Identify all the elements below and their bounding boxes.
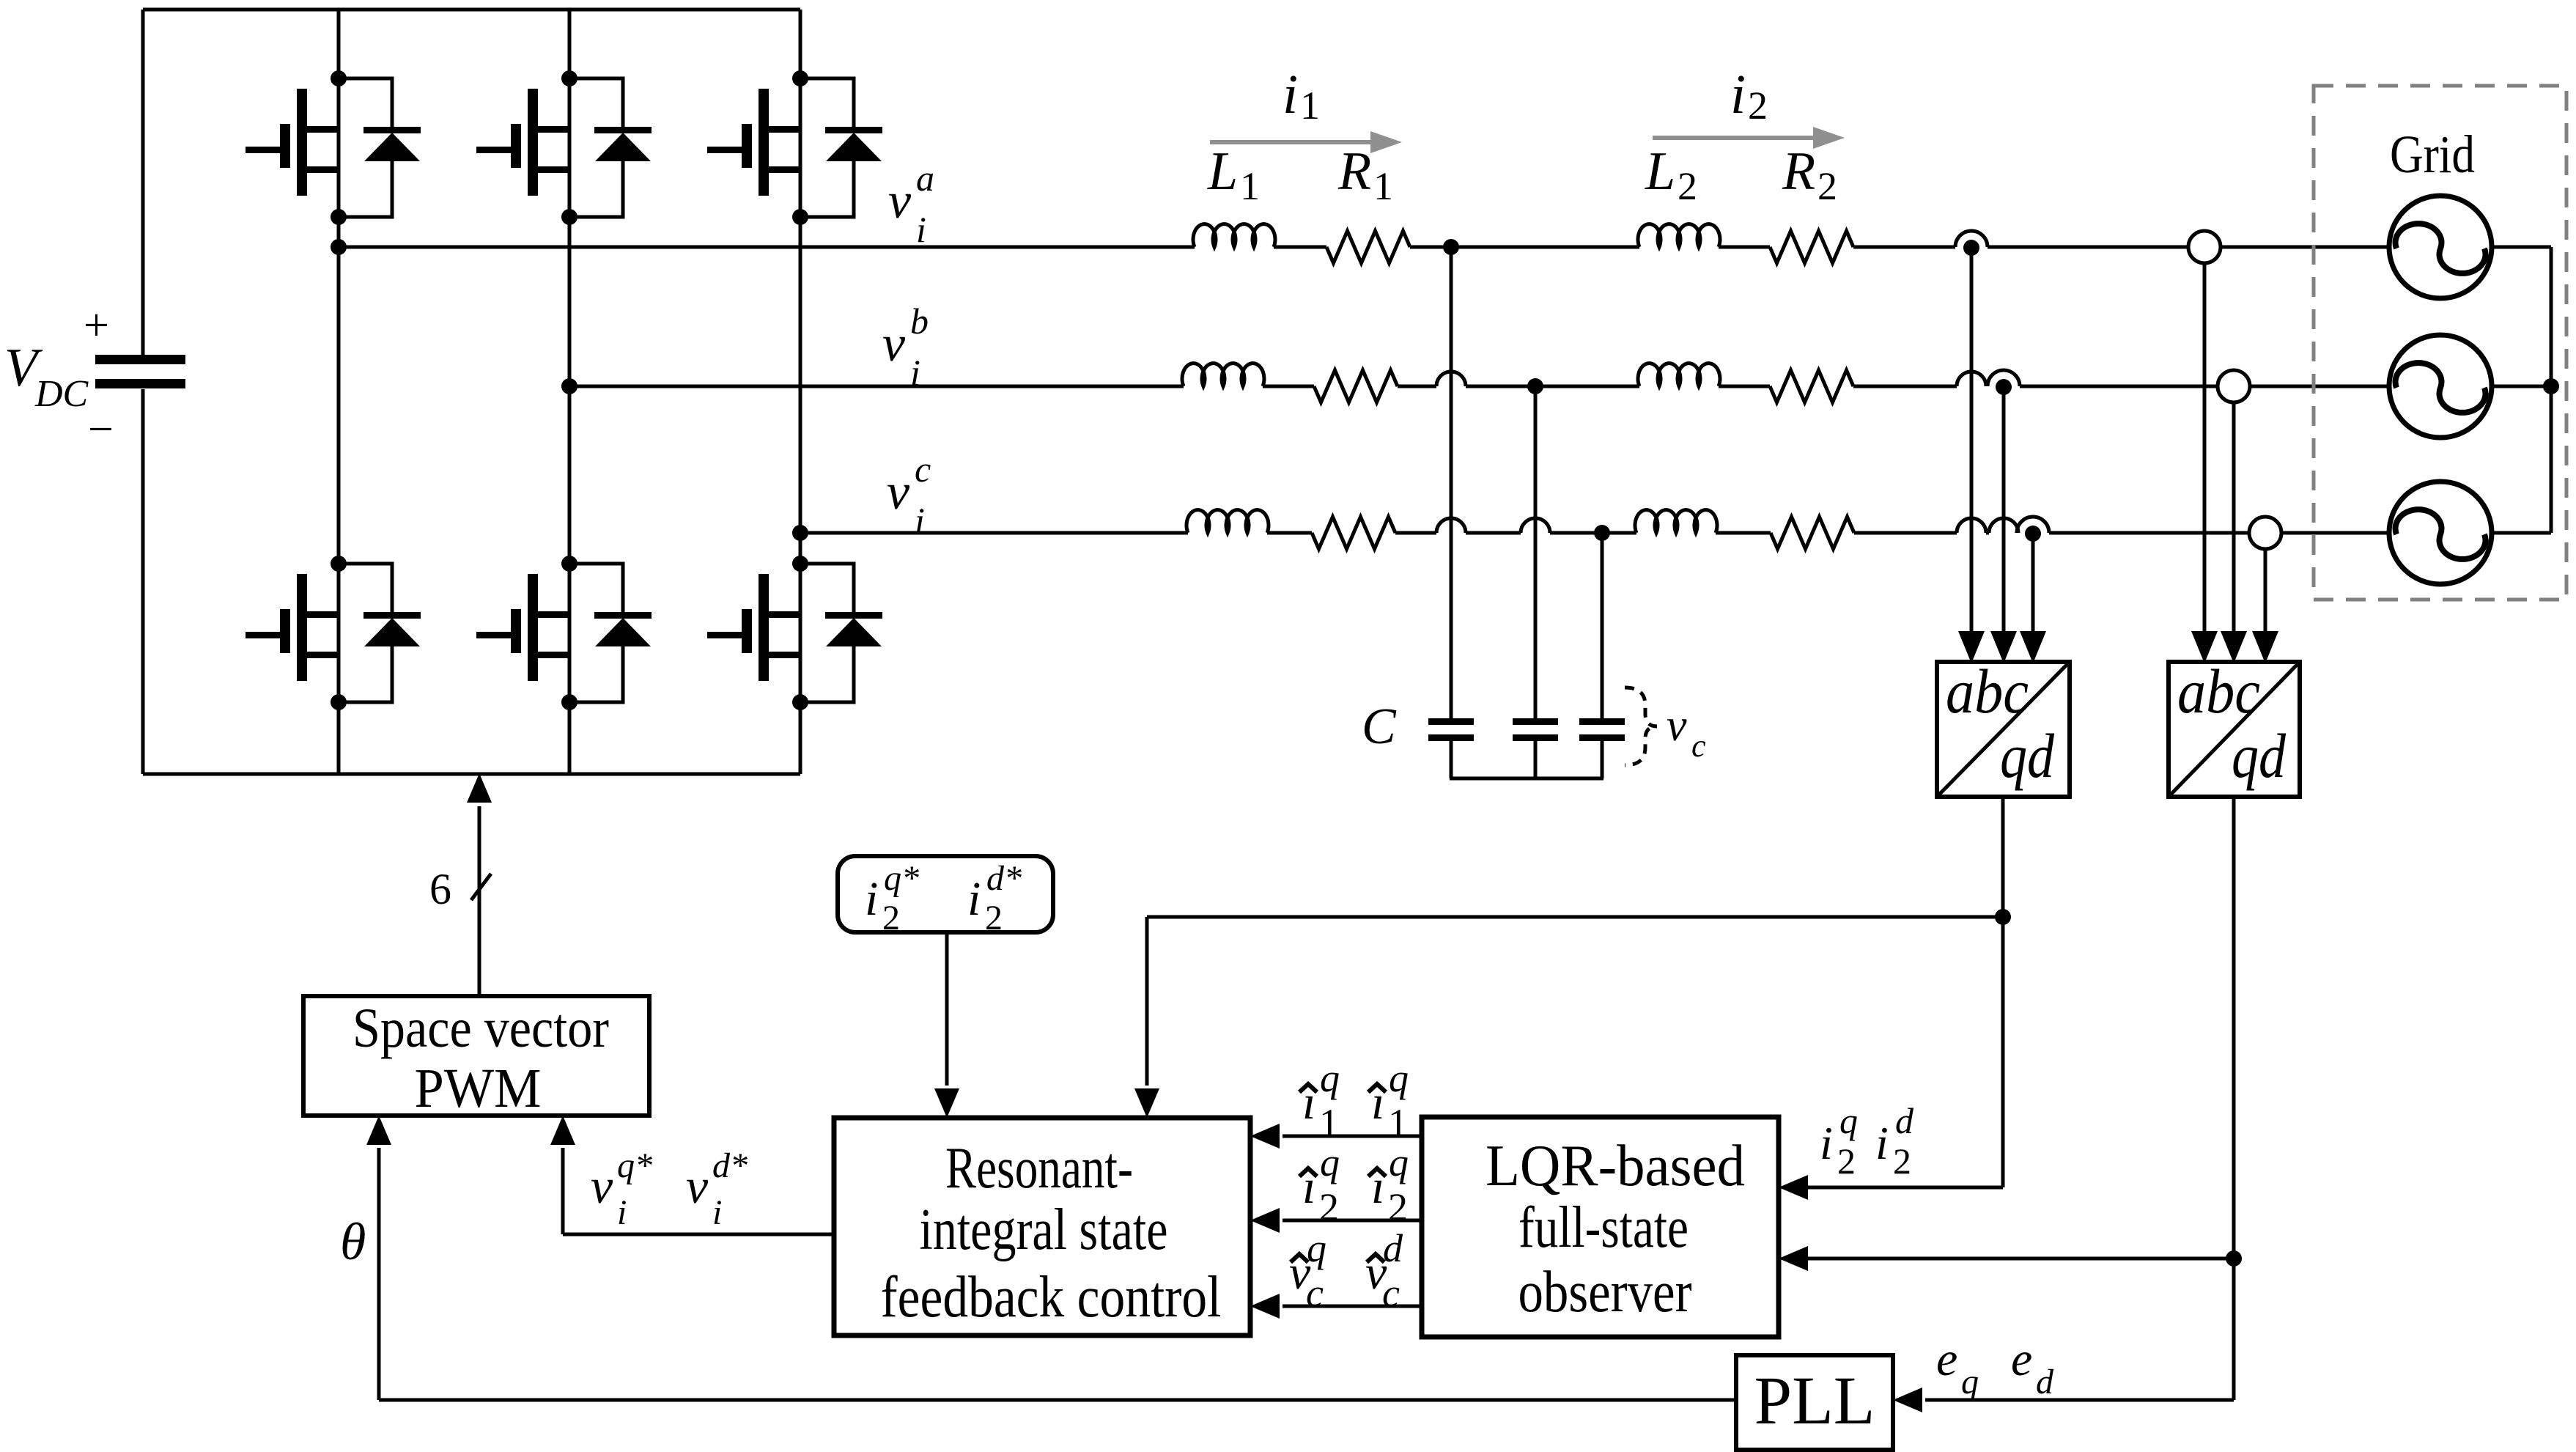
svg-text:2: 2: [985, 899, 1003, 937]
block Space vector PWM: [303, 996, 649, 1116]
svg-text:i: i: [617, 1193, 627, 1232]
svg-text:i: i: [1875, 1117, 1889, 1169]
ac source Va: [2389, 196, 2492, 298]
resistor R2 phase a: [1770, 231, 1853, 263]
svg-text:R: R: [1782, 141, 1815, 202]
block resonant integral state feedback control: [834, 1118, 1250, 1335]
svg-text:2: 2: [1678, 164, 1697, 208]
svg-text:L: L: [1645, 141, 1675, 202]
svg-text:q*: q*: [617, 1146, 652, 1185]
svg-text:q: q: [1320, 1140, 1340, 1184]
wire inverter leg b: [568, 10, 572, 774]
wire i2qd from current abc/qd: [2001, 797, 2005, 1187]
svg-text:v: v: [887, 464, 910, 520]
block abc/qd voltages: [2169, 662, 2300, 797]
svg-text:L: L: [1207, 141, 1238, 202]
svg-text:q: q: [1961, 1363, 1979, 1401]
svg-text:Space vector: Space vector: [353, 998, 609, 1059]
voltage sensor phase a: [2203, 263, 2207, 635]
wire observer vc estimate: [1283, 1305, 1422, 1308]
capacitor C phase b: [1534, 386, 1538, 718]
svg-text:6: 6: [429, 865, 451, 913]
resistor R1 phase b: [1314, 370, 1398, 402]
svg-text:qd: qd: [2232, 721, 2287, 791]
arrow i2 (gray): [1653, 136, 1819, 140]
svg-text:C: C: [1362, 699, 1397, 755]
wire i2qd to resonant controller: [1147, 915, 2003, 919]
svg-text:1: 1: [1373, 164, 1393, 208]
capacitor VDC: [95, 355, 185, 364]
svg-text:v: v: [888, 173, 912, 229]
reference box i2*: [838, 856, 1053, 932]
current sensor phase b: [1988, 370, 2020, 386]
svg-text:PLL: PLL: [1754, 1363, 1875, 1439]
svg-text:d: d: [1383, 1226, 1403, 1270]
svg-text:−: −: [88, 405, 114, 454]
svg-text:2: 2: [1388, 1185, 1408, 1229]
svg-text:DC: DC: [34, 373, 89, 415]
wire viqd* to SVPWM: [563, 1233, 834, 1237]
transistor Q1: [246, 70, 347, 225]
svg-text:q: q: [1389, 1056, 1409, 1100]
diode D4: [569, 564, 652, 702]
node cap c: [1594, 525, 1610, 541]
svg-text:integral state: integral state: [920, 1198, 1168, 1262]
svg-text:v: v: [1667, 701, 1687, 751]
wire grid neutral bus: [2492, 246, 2551, 249]
wire phase c: [800, 531, 1188, 535]
svg-text:2: 2: [1748, 84, 1768, 128]
transistor Q5: [707, 70, 808, 225]
svg-text:i: i: [915, 500, 925, 541]
current sensor phase c: [2017, 517, 2049, 533]
inductor L2 phase b: [1638, 364, 1720, 386]
wire phase b: [569, 385, 1184, 388]
svg-text:a: a: [916, 158, 934, 199]
svg-text:q: q: [1307, 1226, 1326, 1270]
svg-text:v: v: [591, 1158, 613, 1214]
inductor L1 phase b: [1182, 364, 1264, 386]
diode D6: [800, 564, 882, 702]
svg-text:c: c: [1306, 1271, 1324, 1315]
svg-text:i: i: [916, 209, 926, 250]
voltage sensor phase b: [2232, 402, 2236, 635]
svg-text:2: 2: [1817, 164, 1837, 208]
ac source Vc: [2389, 482, 2492, 584]
node phase a tap: [331, 239, 347, 255]
svg-text:i: i: [910, 352, 920, 393]
resistor R1 phase c: [1312, 517, 1395, 549]
resistor R1 phase a: [1326, 231, 1410, 263]
wire observer i1 estimate: [1283, 1135, 1422, 1138]
resistor R2 phase b: [1770, 370, 1853, 402]
svg-text:d*: d*: [986, 859, 1022, 898]
svg-text:i: i: [865, 872, 878, 926]
wire theta to SVPWM: [379, 1398, 1736, 1402]
grid box (dashed): [2314, 86, 2566, 600]
svg-text:e: e: [1936, 1333, 1957, 1386]
svg-text:observer: observer: [1518, 1260, 1692, 1324]
svg-text:i: i: [1730, 64, 1746, 125]
arrow i1 (gray): [1210, 140, 1376, 144]
block abc/qd currents: [1937, 662, 2070, 797]
wire DC bus frame: [143, 8, 800, 12]
svg-text:d: d: [2036, 1363, 2054, 1401]
wire inverter leg c: [799, 10, 802, 774]
svg-text:e: e: [2011, 1333, 2032, 1386]
wire observer i2 estimate: [1283, 1219, 1422, 1223]
diode D1: [339, 78, 421, 217]
transistor Q2: [246, 556, 347, 710]
voltage sensor phase c: [2264, 549, 2267, 635]
svg-text:1: 1: [1240, 164, 1260, 208]
svg-text:q: q: [1839, 1100, 1858, 1141]
wire cap common bus: [1450, 777, 1603, 781]
svg-text:i: i: [1820, 1117, 1833, 1169]
wire phase a: [339, 246, 1195, 249]
svg-text:c: c: [1691, 728, 1706, 764]
svg-text:1: 1: [1388, 1101, 1408, 1145]
block PLL: [1736, 1355, 1893, 1450]
svg-text:i: i: [967, 872, 981, 926]
resistor R2 phase c: [1771, 517, 1854, 549]
node i2qd junction: [1995, 909, 2011, 925]
svg-text:1: 1: [1300, 84, 1320, 128]
svg-text:PWM: PWM: [415, 1058, 542, 1119]
svg-text:i: i: [712, 1193, 722, 1232]
inductor L1 phase a: [1193, 224, 1275, 247]
svg-text:2: 2: [882, 899, 900, 937]
svg-text:θ: θ: [340, 1212, 366, 1271]
wire eqd from voltage abc/qd: [2232, 797, 2236, 1258]
capacitor C phase c: [1601, 533, 1604, 718]
svg-text:Grid: Grid: [2390, 125, 2475, 184]
svg-text:d*: d*: [712, 1146, 748, 1185]
node phase b tap: [561, 378, 577, 394]
node cap a: [1443, 239, 1459, 255]
wire eqd to PLL: [2232, 1258, 2236, 1400]
svg-text:abc: abc: [2177, 656, 2260, 726]
current sensor phase a: [1955, 231, 1988, 247]
node cap b: [1527, 378, 1543, 394]
svg-text:2: 2: [1893, 1140, 1911, 1182]
svg-text:q*: q*: [884, 859, 919, 898]
svg-text:i: i: [1283, 64, 1298, 125]
svg-text:feedback control: feedback control: [881, 1265, 1222, 1330]
capacitor C phase a: [1450, 247, 1453, 718]
diode D5: [800, 78, 882, 217]
node phase c tap: [792, 525, 808, 541]
ac source Vb: [2389, 335, 2492, 438]
svg-text:1: 1: [1319, 1101, 1339, 1145]
svg-text:d: d: [1895, 1100, 1914, 1141]
brace vc: [1625, 688, 1657, 765]
svg-text:q: q: [1320, 1056, 1340, 1100]
diode D2: [339, 564, 421, 702]
svg-text:2: 2: [1837, 1140, 1856, 1182]
inductor L2 phase c: [1635, 510, 1717, 533]
svg-text:q: q: [1389, 1140, 1409, 1184]
svg-text:+: +: [84, 301, 109, 350]
node eqd junction: [2226, 1250, 2242, 1267]
transistor Q4: [476, 556, 577, 710]
svg-text:abc: abc: [1946, 656, 2029, 726]
wire gate signals: [478, 806, 481, 996]
svg-text:c: c: [915, 449, 931, 490]
svg-text:c: c: [1382, 1271, 1400, 1315]
svg-text:v: v: [686, 1158, 709, 1214]
wire reference to resonant controller: [945, 932, 949, 1086]
transistor Q3: [476, 70, 577, 225]
svg-text:Resonant-: Resonant-: [945, 1136, 1133, 1201]
svg-text:qd: qd: [2000, 721, 2055, 791]
svg-text:R: R: [1337, 141, 1371, 202]
svg-text:2: 2: [1319, 1185, 1339, 1229]
inductor L2 phase a: [1638, 224, 1720, 247]
inductor L1 phase c: [1186, 510, 1269, 533]
transistor Q6: [707, 556, 808, 710]
node grid neutral: [2543, 378, 2559, 394]
block LQR-based full-state observer: [1422, 1117, 1779, 1337]
diode D3: [569, 78, 652, 217]
svg-text:v: v: [882, 316, 906, 372]
svg-text:LQR-based: LQR-based: [1486, 1134, 1745, 1198]
wire inverter leg a: [337, 10, 341, 774]
svg-text:b: b: [910, 301, 929, 342]
svg-text:full-state: full-state: [1518, 1195, 1689, 1260]
